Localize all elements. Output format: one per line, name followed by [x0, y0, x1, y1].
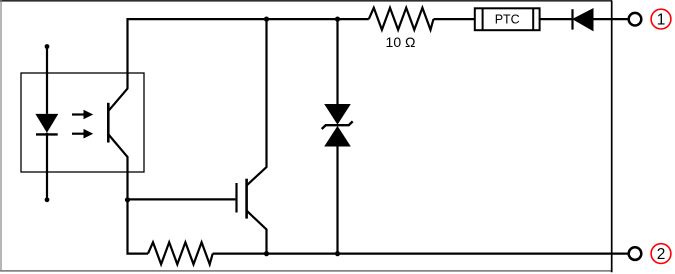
node: junction dot top rail / IGBT collector [264, 17, 269, 22]
phototransistor base bar [107, 103, 110, 143]
TVS riser to bottom rail [336, 146, 338, 254]
TVS top triangle [324, 104, 351, 125]
wire: top rail from optocoupler collector corner to resistor R1 [128, 19, 369, 88]
wire: diode to terminal 1, crossing module edge [593, 18, 628, 20]
PTC fuse body [475, 8, 540, 30]
module outline left edge [0, 0, 2, 272]
node: junction dot bottom rail / IGBT emitter [264, 251, 269, 256]
LED D2 cathode bar [36, 133, 58, 135]
svg-text:PTC: PTC [495, 13, 520, 27]
wire: R1 to PTC [434, 18, 475, 20]
terminal 2 open circle [629, 247, 642, 260]
svg-text:10 Ω: 10 Ω [386, 34, 416, 50]
TVS bottom triangle [324, 126, 351, 147]
svg-text:2: 2 [657, 246, 666, 263]
phototransistor emitter diagonal [109, 135, 128, 158]
node: emitter/gate junction dot [125, 197, 130, 202]
phototransistor collector diagonal [109, 88, 128, 111]
diode D1 cathode bar [571, 9, 573, 29]
node: junction dot top rail / TVS branch [335, 17, 340, 22]
module outline right edge [611, 1, 613, 273]
LED cathode pin wire with end dot [46, 133, 48, 200]
wire: gate node to IGBT gate [128, 198, 236, 200]
light arrow upper [72, 113, 85, 115]
module outline top edge [0, 0, 612, 2]
terminal label circle 2 [651, 244, 671, 264]
TVS Z1 riser from top rail [336, 19, 338, 105]
TVS center bar with bent ends [322, 121, 353, 129]
PTC right end cap [532, 8, 534, 30]
diode D1 triangle [573, 9, 593, 31]
light arrow lower [72, 133, 85, 135]
IGBT emitter diagonal and riser to bottom rail [247, 211, 267, 254]
terminal label circle 1 [651, 9, 671, 29]
svg-text:1: 1 [657, 11, 666, 28]
wire: gate node down to bottom rail corner [128, 200, 149, 254]
resistor R2 zigzag in bottom rail [148, 242, 213, 264]
LED anode pin wire with end dot [45, 44, 50, 49]
PTC left end cap [482, 8, 484, 30]
optocoupler U1 box [21, 73, 144, 172]
wire: bottom rail from R2 to terminal 2 [213, 253, 629, 255]
wire: PTC to diode D1 [540, 18, 573, 20]
resistor R1 10 ohm zigzag [369, 8, 434, 30]
IGBT Q1 body bar [245, 179, 248, 219]
module outline bottom edge [0, 270, 611, 272]
terminal 1 open circle [629, 13, 642, 26]
IGBT collector diagonal and riser to top rail [247, 19, 267, 185]
node: junction dot bottom rail / TVS branch [335, 251, 340, 256]
IGBT Q1 gate bar [235, 183, 237, 213]
LED D2 triangle [35, 114, 58, 133]
wire: emitter down to gate node [126, 157, 128, 200]
